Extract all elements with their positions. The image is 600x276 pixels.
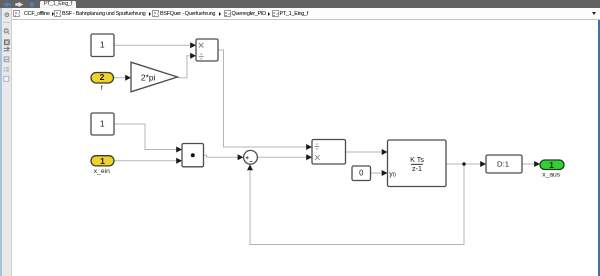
- svg-text:K Ts: K Ts: [410, 155, 424, 164]
- svg-text:2*pi: 2*pi: [141, 73, 156, 83]
- svg-text:0: 0: [359, 169, 364, 178]
- svg-text:D:1: D:1: [497, 160, 509, 169]
- svg-text:f: f: [101, 85, 103, 92]
- svg-text:x_ein: x_ein: [94, 168, 110, 175]
- svg-text:y0: y0: [389, 171, 396, 178]
- svg-text:1: 1: [549, 160, 554, 170]
- svg-text:2: 2: [100, 72, 105, 82]
- svg-text:x_aus: x_aus: [542, 172, 561, 179]
- svg-text:1: 1: [100, 118, 105, 128]
- svg-text:1: 1: [100, 156, 105, 166]
- svg-text:z-1: z-1: [412, 164, 422, 173]
- svg-text:1: 1: [100, 39, 105, 49]
